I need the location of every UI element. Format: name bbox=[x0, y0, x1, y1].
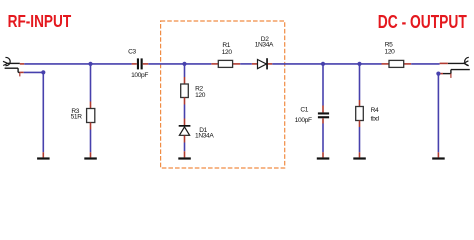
svg-text:120: 120 bbox=[385, 49, 396, 56]
svg-text:100pF: 100pF bbox=[131, 72, 148, 79]
svg-text:C1: C1 bbox=[300, 106, 308, 113]
svg-text:51R: 51R bbox=[71, 114, 83, 121]
svg-text:120: 120 bbox=[222, 49, 233, 56]
svg-text:tbd: tbd bbox=[371, 115, 380, 122]
svg-text:DC - OUTPUT: DC - OUTPUT bbox=[378, 11, 467, 32]
svg-text:1N34A: 1N34A bbox=[195, 133, 214, 140]
svg-text:R5: R5 bbox=[385, 41, 393, 48]
svg-text:R4: R4 bbox=[371, 107, 379, 114]
svg-text:C3: C3 bbox=[128, 48, 136, 55]
svg-text:120: 120 bbox=[195, 92, 206, 99]
svg-text:RF-INPUT: RF-INPUT bbox=[8, 11, 72, 31]
svg-text:100pF: 100pF bbox=[295, 117, 312, 124]
svg-text:1N34A: 1N34A bbox=[255, 42, 274, 49]
svg-text:R1: R1 bbox=[222, 42, 230, 49]
